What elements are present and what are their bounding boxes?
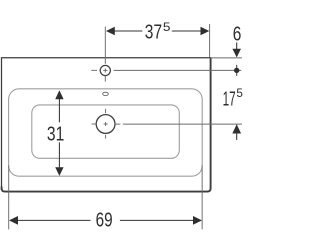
svg-text:69: 69 (96, 209, 113, 232)
svg-text:5: 5 (236, 88, 243, 100)
svg-text:6: 6 (233, 22, 242, 45)
svg-text:5: 5 (163, 22, 171, 34)
svg-text:17: 17 (223, 88, 236, 111)
svg-text:37: 37 (145, 21, 162, 44)
svg-text:31: 31 (47, 123, 64, 146)
